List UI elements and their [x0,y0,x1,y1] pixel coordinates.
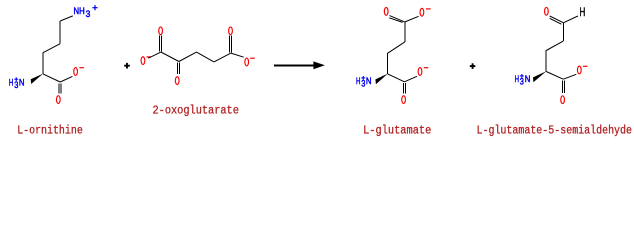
ammonium stacked plus [520,74,524,78]
alpha ammonium stacked plus [14,77,18,81]
bottom carbonyl O [402,96,406,104]
plus sign 2 [470,63,476,69]
bond Cs1-Cs2 [562,23,564,41]
bottom minus [424,67,429,69]
arrow shaft [274,64,316,66]
svg-text:3: 3 [520,77,524,87]
double bond Ca=O [160,36,162,52]
right O(-) [245,58,249,66]
svg-text:H: H [515,74,519,84]
wedge bond C2-N stereo [31,74,43,84]
double bond Cb=O keto [178,63,180,74]
svg-text:NH: NH [74,6,85,16]
bond O(-)-Ca [148,52,161,58]
bond C5-C4 [59,21,61,44]
keto O [175,77,179,85]
double bond Ce=O [230,36,232,53]
bottom O(-) [418,68,422,76]
bond Cs4-Cs5 [546,72,563,80]
left O(-) [141,57,145,65]
double bond O=Cs1 [550,16,564,23]
svg-text:H: H [356,76,360,86]
delta ammonium superscript plus [92,5,97,10]
bond Cd-Ce [214,53,231,62]
left minus [147,56,152,58]
bond Ce-O(-) [231,53,244,57]
O(-) [577,66,581,74]
bond Cg1-O(-) [405,16,419,22]
double bond Cg5=O [403,83,405,94]
reaction arrow [274,61,325,69]
bottom carbonyl O [561,96,565,104]
aldehyde O [545,7,549,15]
bond Cs1-H [563,16,578,23]
bond C3-C2 [42,53,44,74]
svg-text:3: 3 [86,9,91,19]
ammonium stacked plus [361,76,365,80]
svg-text:L-ornithine: L-ornithine [17,123,83,137]
double bond C1=O [59,83,61,93]
carboxylate O(-) [74,68,78,76]
right minus [250,57,255,59]
bond C1-O(-) [60,76,72,82]
Ca top O [159,27,163,35]
arrow head [313,61,325,69]
minus [583,65,588,67]
bond Cc-Cd [197,52,214,62]
Ce top O [229,27,233,35]
svg-text:H: H [580,5,586,19]
plus sign 1 [124,63,130,69]
bond Cs3-Cs4 [545,51,547,72]
bond Cg2-Cg3 [388,42,405,53]
svg-text:N: N [19,78,25,88]
wedge bond Cs4-N stereo [533,71,546,82]
top O(-) [420,8,424,16]
bond Cg4-Cg5 [388,74,405,82]
bond Ca-Cb [161,52,179,62]
carbonyl O [56,96,60,104]
bond Cs2-Cs3 [546,41,563,50]
top carbonyl O [384,7,388,15]
top minus [426,8,431,10]
carboxylate minus [79,67,84,69]
bond Cg1-Cg2 [404,22,406,42]
double bond Cs5=O [562,81,564,94]
bond Cg5-O(-) [404,76,417,82]
svg-text:N: N [525,74,531,84]
svg-text:3: 3 [14,80,18,90]
svg-text:H: H [9,78,13,88]
bond C2-C1 [43,74,60,82]
double bond O=Cg1 [390,16,405,22]
svg-text:L-glutamate: L-glutamate [363,123,431,137]
bond C4-C3 [43,44,60,53]
svg-text:N: N [366,76,372,86]
bond Cs5-O(-) [563,74,576,79]
svg-text:3: 3 [361,79,365,89]
bond N-C5 [60,16,73,21]
bond Cg3-Cg4 [387,53,389,74]
svg-text:L-glutamate-5-semialdehyde: L-glutamate-5-semialdehyde [477,123,633,137]
svg-text:2-oxoglutarate: 2-oxoglutarate [153,103,239,117]
wedge bond Cg4-N stereo [375,74,387,85]
bond Cb-Cc [179,52,197,61]
